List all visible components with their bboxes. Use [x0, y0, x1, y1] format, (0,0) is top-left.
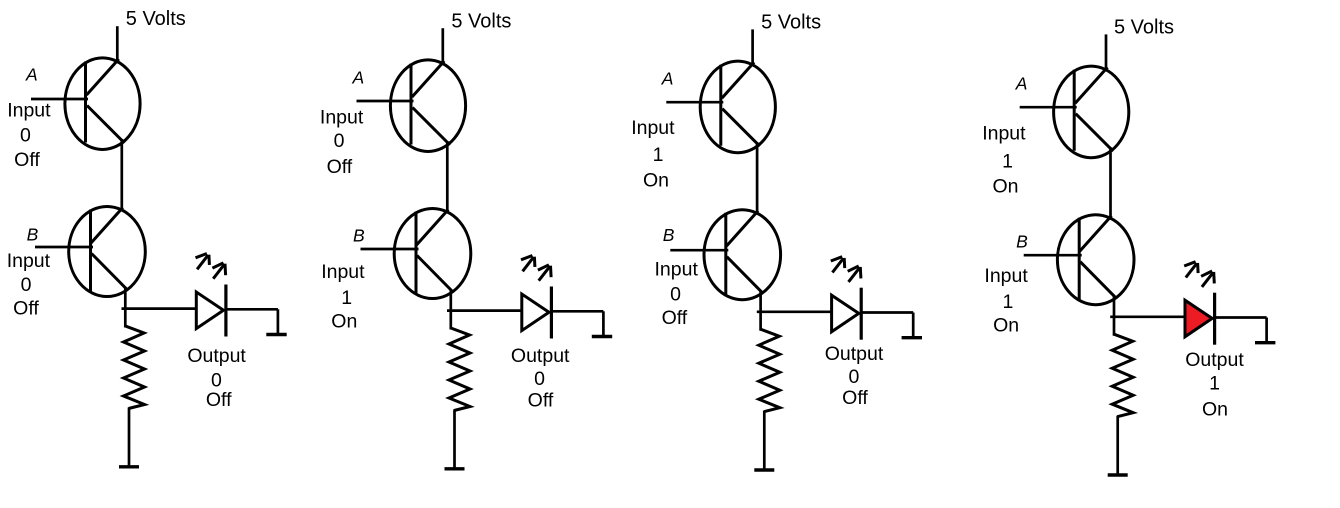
transistor Q4A (NPN, input A) panel 4 — [1054, 66, 1129, 158]
label "Input" (B) panel 4 — [984, 265, 1028, 287]
wire: input A base lead panel 2 — [357, 100, 414, 103]
svg-text:Off: Off — [14, 149, 40, 171]
svg-text:Input: Input — [7, 250, 51, 272]
node label B panel 2 — [353, 225, 365, 245]
LED D1 (output indicator) panel 1 — [196, 285, 226, 337]
svg-text:On: On — [993, 314, 1019, 336]
svg-text:0: 0 — [670, 283, 681, 305]
value label "0" (output) panel 3 — [848, 366, 859, 388]
wire: down to LED ground panel 2 — [602, 311, 605, 335]
label "Input" (B) panel 1 — [7, 250, 51, 272]
wire: LED cathode to ground drop panel 4 — [1216, 316, 1267, 319]
transistor Q1B (NPN, input B) panel 1 — [69, 207, 146, 297]
wire: Q2A emitter to Q2B collector — [446, 141, 449, 214]
state label "On" (B) panel 4 — [993, 314, 1019, 336]
LED light-emission arrow 1 panel 4 — [1184, 262, 1198, 278]
wire: output node junction to LED anode panel 1 — [122, 307, 197, 310]
label "Output" panel 2 — [511, 345, 570, 367]
wire: Q4A emitter to Q4B collector — [1109, 147, 1112, 220]
value label "0" (A) panel 2 — [334, 130, 345, 152]
wire: down to LED ground panel 1 — [277, 309, 280, 333]
wire: 5V supply to collector of Q4A — [1105, 34, 1108, 70]
wire: output node junction to LED anode panel 4 — [1110, 315, 1185, 318]
wire: 5V supply to collector of Q1A — [116, 26, 119, 62]
transistor Q2B (NPN, input B) panel 2 — [394, 209, 471, 299]
state label "Off" (A) panel 2 — [327, 156, 353, 178]
wire: Q2B emitter down to output node panel 2 — [449, 290, 452, 330]
svg-text:Off: Off — [327, 156, 353, 178]
label "Input" (A) panel 4 — [982, 123, 1026, 145]
ground (below R3) panel 3 — [754, 468, 774, 471]
value label "1" (output) panel 4 — [1209, 373, 1220, 395]
svg-text:Output: Output — [187, 345, 246, 367]
svg-text:0: 0 — [20, 124, 31, 146]
label "Input" (A) panel 3 — [631, 117, 675, 139]
svg-text:A: A — [351, 68, 364, 88]
wire: R1 to ground panel 1 — [128, 408, 131, 467]
node label A panel 3 — [661, 68, 674, 88]
transistor Q3A (NPN, input A) panel 3 — [700, 61, 775, 153]
svg-text:1: 1 — [653, 144, 664, 166]
value label "0" (output) panel 1 — [211, 370, 222, 392]
svg-text:Output: Output — [1185, 349, 1244, 371]
node label B panel 1 — [27, 225, 39, 245]
node label B panel 4 — [1016, 232, 1028, 252]
ground (below R1) panel 1 — [119, 465, 139, 468]
svg-text:Output: Output — [511, 345, 570, 367]
svg-text:0: 0 — [534, 368, 545, 390]
resistor R3 (emitter pulldown) panel 3 — [759, 329, 780, 412]
state label "On" (A) panel 4 — [992, 176, 1018, 198]
value label "1" (B) panel 2 — [341, 287, 352, 309]
value label "1" (A) panel 4 — [1002, 150, 1013, 172]
net label "5 Volts" panel 1 — [126, 8, 186, 30]
wire: Q4B emitter down to output node panel 4 — [1113, 296, 1116, 336]
svg-text:On: On — [643, 170, 669, 192]
svg-text:B: B — [663, 225, 675, 245]
net label "5 Volts" panel 4 — [1114, 16, 1174, 38]
wire: input B base lead panel 2 — [361, 248, 419, 251]
svg-text:Off: Off — [13, 298, 39, 320]
ground (LED return) panel 2 — [592, 335, 612, 338]
net label "5 Volts" panel 3 — [761, 11, 821, 33]
label "Output" panel 4 — [1185, 349, 1244, 371]
label "Output" panel 3 — [825, 343, 884, 365]
label "Output" panel 1 — [187, 345, 246, 367]
svg-text:Input: Input — [320, 107, 364, 129]
state label "On" (output) panel 4 — [1202, 398, 1228, 420]
transistor Q1A (NPN, input A) panel 1 — [65, 58, 140, 150]
ground (LED return) panel 3 — [902, 336, 922, 339]
svg-text:Input: Input — [631, 117, 675, 139]
ground (below R4) panel 4 — [1108, 473, 1128, 476]
wire: R2 to ground panel 2 — [453, 410, 456, 469]
svg-text:0: 0 — [334, 130, 345, 152]
value label "1" (B) panel 4 — [1002, 291, 1013, 313]
svg-text:1: 1 — [341, 287, 352, 309]
wire: R4 to ground panel 4 — [1116, 416, 1119, 475]
node label A panel 1 — [25, 65, 38, 85]
transistor Q4B (NPN, input B) panel 4 — [1057, 215, 1134, 305]
state label "Off" (B) panel 3 — [662, 307, 688, 329]
LED light-emission arrow 2 panel 2 — [538, 265, 551, 281]
wire: input A base lead panel 1 — [31, 98, 88, 101]
svg-text:1: 1 — [1209, 373, 1220, 395]
svg-text:B: B — [353, 225, 365, 245]
node label A panel 4 — [1015, 74, 1028, 94]
wire: LED cathode to ground drop panel 1 — [227, 308, 278, 311]
LED light-emission arrow 2 panel 1 — [212, 263, 225, 279]
value label "1" (A) panel 3 — [653, 144, 664, 166]
LED light-emission arrow 1 panel 2 — [521, 256, 535, 272]
LED D2 (output indicator) panel 2 — [522, 287, 552, 339]
svg-text:Input: Input — [655, 259, 699, 281]
wire: down to LED ground panel 3 — [912, 313, 915, 337]
ground (LED return) panel 1 — [266, 333, 286, 336]
label "Input" (A) panel 1 — [7, 100, 51, 122]
wire: 5V supply to collector of Q2A — [441, 28, 444, 64]
svg-text:A: A — [1015, 74, 1028, 94]
LED D3 (output indicator) panel 3 — [832, 288, 862, 340]
svg-text:1: 1 — [1002, 291, 1013, 313]
wire: R3 to ground panel 3 — [763, 411, 766, 470]
value label "0" (output) panel 2 — [534, 368, 545, 390]
label "Input" (A) panel 2 — [320, 107, 364, 129]
node label A panel 2 — [351, 68, 364, 88]
wire: input A base lead panel 3 — [666, 101, 723, 104]
svg-text:On: On — [1202, 398, 1228, 420]
svg-text:5 Volts: 5 Volts — [451, 11, 511, 33]
svg-text:1: 1 — [1002, 150, 1013, 172]
transistor Q3B (NPN, input B) panel 3 — [704, 210, 781, 300]
wire: Q3B emitter down to output node panel 3 — [759, 291, 762, 331]
label "Input" (B) panel 2 — [321, 261, 365, 283]
wire: Q1B emitter down to output node panel 1 — [124, 288, 127, 328]
wire: 5V supply to collector of Q3A — [751, 29, 754, 65]
svg-text:Off: Off — [206, 389, 232, 411]
LED light-emission arrow 2 panel 3 — [848, 266, 861, 282]
svg-text:Input: Input — [982, 123, 1026, 145]
LED light-emission arrow 1 panel 3 — [831, 257, 845, 273]
transistor Q2A (NPN, input A) panel 2 — [390, 60, 465, 152]
wire: input B base lead panel 3 — [670, 249, 728, 252]
state label "Off" (output) panel 2 — [528, 390, 554, 412]
svg-text:Output: Output — [825, 343, 884, 365]
LED D4 (output indicator) panel 4 — [1185, 293, 1215, 345]
svg-text:5 Volts: 5 Volts — [1114, 16, 1174, 38]
wire: input B base lead panel 4 — [1024, 254, 1082, 257]
svg-text:A: A — [661, 68, 674, 88]
svg-text:Input: Input — [7, 100, 51, 122]
LED light-emission arrow 1 panel 1 — [196, 254, 210, 270]
value label "0" (A) panel 1 — [20, 124, 31, 146]
state label "Off" (A) panel 1 — [14, 149, 40, 171]
svg-text:Input: Input — [984, 265, 1028, 287]
ground (LED return) panel 4 — [1255, 341, 1275, 344]
wire: output node junction to LED anode panel 2 — [447, 309, 522, 312]
svg-text:5 Volts: 5 Volts — [761, 11, 821, 33]
svg-text:Off: Off — [842, 387, 868, 409]
value label "0" (B) panel 1 — [21, 274, 32, 296]
wire: Q1A emitter to Q1B collector — [120, 139, 123, 212]
wire: output node junction to LED anode panel 3 — [757, 310, 832, 313]
label "Input" (B) panel 3 — [655, 259, 699, 281]
svg-text:Off: Off — [662, 307, 688, 329]
net label "5 Volts" panel 2 — [451, 11, 511, 33]
LED light-emission arrow 2 panel 4 — [1201, 271, 1214, 287]
state label "Off" (output) panel 1 — [206, 389, 232, 411]
svg-text:Off: Off — [528, 390, 554, 412]
state label "Off" (output) panel 3 — [842, 387, 868, 409]
node label B panel 3 — [663, 225, 675, 245]
svg-text:0: 0 — [848, 366, 859, 388]
svg-text:A: A — [25, 65, 38, 85]
wire: input B base lead panel 1 — [35, 246, 93, 249]
state label "Off" (B) panel 1 — [13, 298, 39, 320]
wire: input A base lead panel 4 — [1020, 106, 1077, 109]
value label "0" (B) panel 3 — [670, 283, 681, 305]
state label "On" (B) panel 2 — [331, 311, 357, 333]
svg-text:On: On — [992, 176, 1018, 198]
resistor R4 (emitter pulldown) panel 4 — [1112, 334, 1133, 417]
wire: LED cathode to ground drop panel 2 — [553, 310, 604, 313]
resistor R1 (emitter pulldown) panel 1 — [124, 326, 145, 409]
svg-text:On: On — [331, 311, 357, 333]
svg-text:0: 0 — [21, 274, 32, 296]
resistor R2 (emitter pulldown) panel 2 — [449, 328, 470, 411]
state label "On" (A) panel 3 — [643, 170, 669, 192]
wire: Q3A emitter to Q3B collector — [756, 142, 759, 215]
svg-text:Input: Input — [321, 261, 365, 283]
svg-text:B: B — [1016, 232, 1028, 252]
ground (below R2) panel 2 — [445, 467, 465, 470]
wire: LED cathode to ground drop panel 3 — [862, 311, 913, 314]
svg-text:B: B — [27, 225, 39, 245]
wire: down to LED ground panel 4 — [1265, 318, 1268, 342]
svg-text:5 Volts: 5 Volts — [126, 8, 186, 30]
